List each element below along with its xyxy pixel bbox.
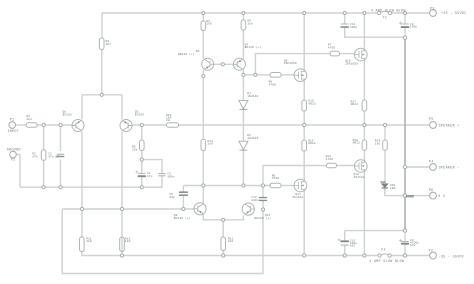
svg-text:LED: LED	[390, 187, 396, 190]
svg-text:2SJ162: 2SJ162	[354, 176, 365, 179]
svg-text:BD139 (+): BD139 (+)	[245, 45, 262, 49]
svg-text:INPUT: INPUT	[7, 129, 19, 133]
svg-text:63V: 63V	[410, 244, 416, 247]
svg-text:33p: 33p	[169, 196, 175, 199]
svg-text:1W: 1W	[166, 119, 170, 122]
svg-text:2SK1058: 2SK1058	[345, 63, 358, 66]
svg-text:GROUND: GROUND	[7, 147, 21, 151]
svg-text:0R22: 0R22	[351, 103, 359, 106]
svg-text:4k7: 4k7	[106, 42, 112, 46]
svg-text:1k0: 1k0	[125, 239, 131, 243]
svg-text:0 V: 0 V	[438, 194, 445, 198]
svg-text:P3: P3	[430, 6, 435, 10]
svg-text:1k0: 1k0	[207, 142, 213, 146]
svg-text:47u BP: 47u BP	[48, 155, 59, 158]
svg-text:100n: 100n	[350, 26, 358, 29]
svg-text:SPEAKER -: SPEAKER -	[439, 165, 460, 169]
svg-text:4 AMP SLOW BLOW: 4 AMP SLOW BLOW	[371, 9, 406, 13]
svg-text:F2: F2	[381, 248, 386, 252]
svg-text:BC556: BC556	[135, 114, 144, 117]
svg-text:0R22: 0R22	[308, 102, 316, 105]
svg-text:AGND: AGND	[406, 194, 414, 198]
svg-text:100u: 100u	[410, 26, 418, 29]
svg-text:+35 - 55VDC: +35 - 55VDC	[441, 11, 467, 15]
svg-text:2SJ162: 2SJ162	[292, 196, 303, 199]
svg-text:4700: 4700	[328, 47, 336, 50]
svg-text:4700: 4700	[326, 158, 334, 161]
svg-text:P4: P4	[429, 160, 434, 164]
svg-text:1k8: 1k8	[206, 22, 212, 26]
svg-text:1k0: 1k0	[228, 239, 234, 243]
svg-text:47k: 47k	[32, 155, 38, 159]
svg-text:BC556: BC556	[63, 114, 72, 117]
svg-text:2SK1058: 2SK1058	[284, 62, 297, 65]
svg-text:BD140 (+): BD140 (+)	[178, 52, 195, 56]
svg-text:4 AMP SLOW BLOW: 4 AMP SLOW BLOW	[369, 259, 404, 263]
svg-text:P1: P1	[10, 118, 15, 122]
svg-text:0R22: 0R22	[353, 142, 361, 145]
svg-text:1N4148: 1N4148	[247, 95, 258, 98]
svg-text:100n: 100n	[251, 199, 259, 202]
svg-text:P5: P5	[429, 117, 434, 121]
svg-text:P7: P7	[429, 249, 434, 253]
svg-text:1k0: 1k0	[86, 239, 92, 243]
svg-text:1k0: 1k0	[375, 142, 381, 146]
svg-text:F1: F1	[383, 15, 388, 19]
svg-text:SPEAKER +: SPEAKER +	[439, 123, 460, 127]
svg-text:1N4148: 1N4148	[247, 137, 258, 140]
svg-text:1k8: 1k8	[247, 21, 253, 25]
svg-text:Q6: Q6	[196, 50, 200, 53]
svg-text:P6: P6	[429, 188, 434, 192]
svg-text:BD139 (+): BD139 (+)	[254, 216, 271, 220]
svg-text:4700: 4700	[272, 177, 280, 180]
svg-text:0R22: 0R22	[308, 142, 316, 145]
svg-text:100n: 100n	[167, 175, 175, 178]
svg-text:P2: P2	[11, 158, 16, 162]
svg-text:22k: 22k	[132, 147, 138, 151]
svg-text:2k2: 2k2	[26, 117, 32, 121]
svg-text:47u: 47u	[147, 175, 153, 178]
svg-text:-35 - 55VDC: -35 - 55VDC	[439, 255, 465, 259]
svg-text:BD139 (+): BD139 (+)	[174, 216, 191, 220]
svg-text:63V: 63V	[350, 245, 356, 248]
svg-text:4700: 4700	[269, 84, 277, 87]
